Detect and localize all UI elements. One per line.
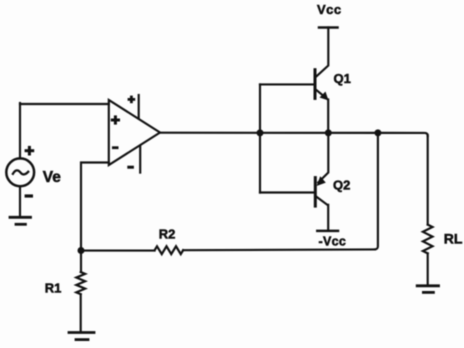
svg-text:Vcc: Vcc	[317, 2, 342, 17]
svg-text:RL: RL	[444, 230, 463, 246]
svg-text:Q2: Q2	[333, 178, 350, 193]
svg-text:R2: R2	[159, 227, 176, 242]
svg-text:Ve: Ve	[43, 169, 61, 186]
svg-text:-Vcc: -Vcc	[319, 234, 347, 248]
svg-text:Q1: Q1	[334, 71, 351, 86]
svg-text:R1: R1	[45, 280, 62, 295]
